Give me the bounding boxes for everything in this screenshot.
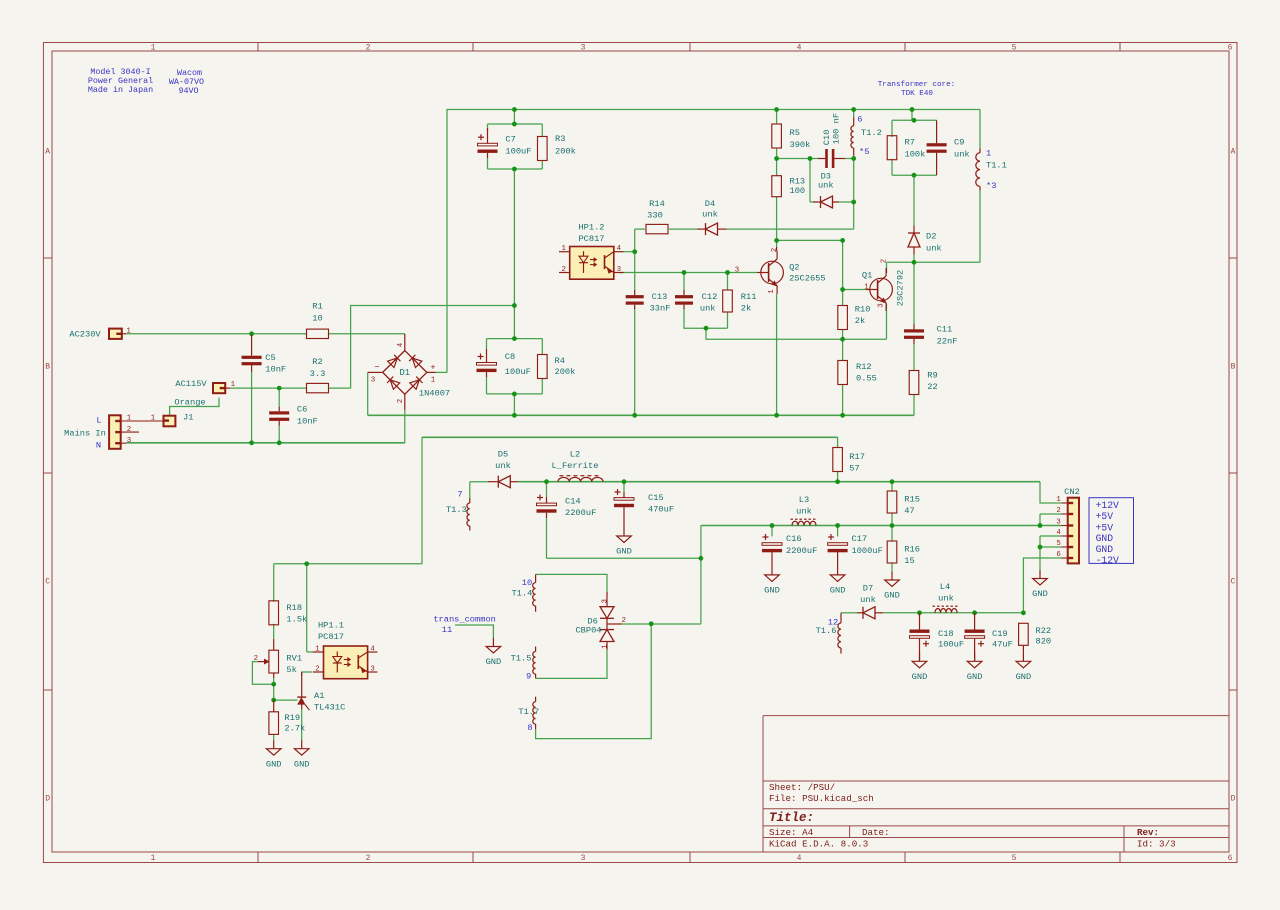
svg-text:10nF: 10nF bbox=[297, 416, 318, 426]
svg-text:D1: D1 bbox=[400, 368, 411, 378]
svg-text:Sheet: /PSU/: Sheet: /PSU/ bbox=[769, 782, 835, 793]
svg-text:C: C bbox=[45, 577, 50, 586]
svg-text:File: PSU.kicad_sch: File: PSU.kicad_sch bbox=[769, 793, 874, 804]
svg-text:unk: unk bbox=[860, 595, 876, 605]
svg-text:R18: R18 bbox=[286, 603, 302, 613]
svg-text:T1.1: T1.1 bbox=[986, 161, 1007, 171]
svg-text:3: 3 bbox=[1056, 519, 1060, 527]
svg-text:D4: D4 bbox=[705, 199, 715, 209]
svg-text:PC817: PC817 bbox=[318, 632, 344, 642]
svg-text:4: 4 bbox=[397, 342, 405, 347]
svg-text:R11: R11 bbox=[741, 292, 757, 302]
svg-text:4: 4 bbox=[617, 245, 622, 253]
svg-text:2: 2 bbox=[397, 399, 405, 403]
svg-text:R10: R10 bbox=[855, 304, 871, 314]
svg-text:3: 3 bbox=[581, 854, 586, 863]
svg-text:C6: C6 bbox=[297, 405, 307, 415]
svg-text:B: B bbox=[1231, 362, 1236, 371]
svg-text:C16: C16 bbox=[786, 534, 802, 544]
svg-text:3.3: 3.3 bbox=[310, 369, 326, 379]
svg-text:4: 4 bbox=[1056, 529, 1061, 537]
svg-text:T1.5: T1.5 bbox=[511, 654, 532, 664]
svg-text:GND: GND bbox=[1096, 533, 1114, 544]
svg-text:330: 330 bbox=[647, 211, 663, 221]
svg-text:L_Ferrite: L_Ferrite bbox=[552, 461, 599, 471]
svg-text:R16: R16 bbox=[904, 545, 920, 555]
svg-text:C7: C7 bbox=[505, 134, 515, 144]
svg-text:D2: D2 bbox=[926, 232, 936, 242]
svg-text:820: 820 bbox=[1036, 637, 1052, 647]
svg-text:2: 2 bbox=[315, 665, 319, 673]
svg-text:6: 6 bbox=[857, 115, 862, 125]
svg-text:D5: D5 bbox=[498, 450, 508, 460]
svg-text:+12V: +12V bbox=[1096, 500, 1119, 511]
svg-text:*5: *5 bbox=[859, 147, 869, 157]
svg-text:4: 4 bbox=[370, 645, 375, 653]
svg-text:2: 2 bbox=[771, 248, 779, 252]
svg-text:1000uF: 1000uF bbox=[852, 546, 883, 556]
svg-text:C15: C15 bbox=[648, 493, 664, 503]
svg-text:+: + bbox=[430, 363, 435, 373]
svg-text:GND: GND bbox=[294, 759, 310, 769]
svg-text:10: 10 bbox=[312, 314, 322, 324]
svg-text:Rev:: Rev: bbox=[1137, 827, 1159, 838]
svg-text:22: 22 bbox=[927, 382, 937, 392]
svg-text:10nF: 10nF bbox=[265, 365, 286, 375]
svg-text:1.5k: 1.5k bbox=[286, 615, 307, 625]
svg-text:D: D bbox=[1231, 794, 1236, 803]
svg-text:94VO: 94VO bbox=[178, 86, 198, 96]
svg-text:47: 47 bbox=[904, 506, 914, 516]
svg-text:57: 57 bbox=[849, 464, 859, 474]
svg-text:RV1: RV1 bbox=[286, 654, 302, 664]
svg-text:GND: GND bbox=[1016, 672, 1032, 682]
svg-text:R12: R12 bbox=[856, 362, 872, 372]
svg-text:Orange: Orange bbox=[174, 398, 205, 408]
svg-text:33nF: 33nF bbox=[650, 303, 671, 313]
svg-text:200k: 200k bbox=[555, 367, 576, 377]
svg-text:HP1.1: HP1.1 bbox=[318, 620, 344, 630]
svg-text:22nF: 22nF bbox=[937, 336, 958, 346]
svg-text:Transformer core:: Transformer core: bbox=[878, 81, 955, 89]
svg-text:1: 1 bbox=[151, 415, 156, 423]
svg-text:1: 1 bbox=[151, 43, 156, 52]
svg-text:AC230V: AC230V bbox=[69, 330, 101, 340]
svg-text:5k: 5k bbox=[286, 665, 296, 675]
svg-text:L3: L3 bbox=[799, 495, 809, 505]
svg-text:+5V: +5V bbox=[1096, 522, 1114, 533]
svg-text:B: B bbox=[45, 362, 50, 371]
svg-text:1: 1 bbox=[231, 381, 236, 389]
svg-text:L4: L4 bbox=[940, 582, 950, 592]
svg-text:C14: C14 bbox=[565, 496, 581, 506]
svg-text:Mains In: Mains In bbox=[64, 428, 106, 438]
svg-text:3: 3 bbox=[735, 267, 739, 275]
svg-text:C18: C18 bbox=[938, 629, 954, 639]
svg-text:KiCad E.D.A. 8.0.3: KiCad E.D.A. 8.0.3 bbox=[769, 839, 868, 850]
svg-text:N: N bbox=[96, 440, 101, 450]
svg-text:2: 2 bbox=[127, 426, 131, 434]
svg-text:C12: C12 bbox=[702, 292, 718, 302]
svg-text:2200uF: 2200uF bbox=[565, 508, 596, 518]
svg-text:2k: 2k bbox=[741, 303, 751, 313]
svg-text:2: 2 bbox=[366, 43, 371, 52]
svg-text:3: 3 bbox=[127, 437, 131, 445]
svg-text:GND: GND bbox=[1096, 544, 1114, 555]
svg-text:15: 15 bbox=[904, 556, 914, 566]
svg-text:1: 1 bbox=[601, 644, 609, 649]
svg-text:GND: GND bbox=[830, 586, 846, 596]
svg-text:R1: R1 bbox=[312, 302, 322, 312]
svg-text:1: 1 bbox=[768, 289, 776, 294]
svg-text:GND: GND bbox=[884, 591, 900, 601]
svg-text:C11: C11 bbox=[937, 325, 953, 335]
svg-text:100uF: 100uF bbox=[505, 146, 531, 156]
svg-text:R15: R15 bbox=[904, 495, 920, 505]
svg-text:A: A bbox=[1231, 147, 1236, 156]
svg-text:1: 1 bbox=[864, 284, 869, 292]
svg-text:1: 1 bbox=[126, 327, 131, 335]
svg-text:L: L bbox=[96, 416, 101, 426]
svg-text:unk: unk bbox=[938, 594, 954, 604]
svg-text:2.7k: 2.7k bbox=[284, 723, 305, 733]
svg-text:J1: J1 bbox=[183, 413, 193, 423]
svg-text:unk: unk bbox=[796, 507, 812, 517]
svg-text:-12V: -12V bbox=[1096, 555, 1119, 566]
svg-text:R4: R4 bbox=[555, 356, 565, 366]
svg-text:100 nF: 100 nF bbox=[831, 113, 841, 144]
svg-text:C13: C13 bbox=[652, 292, 668, 302]
svg-text:390k: 390k bbox=[790, 140, 811, 150]
svg-text:3: 3 bbox=[370, 665, 374, 673]
svg-text:R19: R19 bbox=[284, 713, 300, 723]
svg-text:2SC2655: 2SC2655 bbox=[789, 274, 826, 284]
svg-text:T1.4: T1.4 bbox=[511, 589, 532, 599]
svg-text:L2: L2 bbox=[570, 450, 580, 460]
svg-text:5: 5 bbox=[1056, 540, 1060, 548]
svg-text:T1.2: T1.2 bbox=[861, 128, 882, 138]
svg-text:A1: A1 bbox=[314, 691, 324, 701]
svg-text:CBP04: CBP04 bbox=[575, 626, 601, 636]
svg-text:7: 7 bbox=[457, 490, 462, 500]
svg-text:C17: C17 bbox=[852, 534, 868, 544]
svg-text:2: 2 bbox=[1056, 507, 1060, 515]
svg-text:8: 8 bbox=[527, 723, 532, 733]
svg-text:10: 10 bbox=[522, 578, 532, 588]
svg-text:unk: unk bbox=[702, 210, 718, 220]
svg-text:100: 100 bbox=[790, 186, 806, 196]
svg-text:*3: *3 bbox=[986, 181, 996, 191]
svg-text:D7: D7 bbox=[863, 584, 873, 594]
svg-text:R5: R5 bbox=[790, 128, 800, 138]
svg-text:unk: unk bbox=[700, 303, 716, 313]
svg-text:trans_common: trans_common bbox=[433, 615, 496, 625]
svg-text:3: 3 bbox=[617, 266, 621, 274]
svg-text:1: 1 bbox=[431, 377, 436, 385]
svg-text:0.55: 0.55 bbox=[856, 374, 877, 384]
svg-text:2: 2 bbox=[881, 259, 889, 263]
svg-text:Made in Japan: Made in Japan bbox=[88, 85, 153, 95]
svg-text:Size: A4: Size: A4 bbox=[769, 827, 814, 838]
svg-text:2: 2 bbox=[621, 617, 625, 625]
svg-text:3: 3 bbox=[581, 43, 586, 52]
svg-text:D: D bbox=[45, 794, 50, 803]
svg-text:2k: 2k bbox=[855, 316, 865, 326]
svg-text:1N4007: 1N4007 bbox=[419, 388, 450, 398]
svg-text:C: C bbox=[1231, 577, 1236, 586]
svg-text:2: 2 bbox=[254, 655, 258, 663]
svg-text:GND: GND bbox=[266, 759, 282, 769]
svg-text:TDK E40: TDK E40 bbox=[901, 90, 933, 98]
svg-text:PC817: PC817 bbox=[578, 234, 604, 244]
svg-text:1: 1 bbox=[315, 645, 320, 653]
svg-text:100uF: 100uF bbox=[938, 640, 964, 650]
svg-text:1: 1 bbox=[561, 245, 566, 253]
svg-text:R9: R9 bbox=[927, 371, 937, 381]
svg-text:unk: unk bbox=[495, 461, 511, 471]
svg-text:T1.6: T1.6 bbox=[816, 626, 837, 636]
svg-text:C9: C9 bbox=[954, 138, 964, 148]
svg-text:R7: R7 bbox=[905, 138, 915, 148]
svg-text:A: A bbox=[45, 147, 50, 156]
svg-text:unk: unk bbox=[818, 181, 834, 191]
svg-text:2SC2792: 2SC2792 bbox=[896, 270, 906, 307]
svg-text:2: 2 bbox=[366, 854, 371, 863]
svg-text:4: 4 bbox=[797, 43, 802, 52]
svg-text:5: 5 bbox=[1012, 43, 1017, 52]
svg-text:R14: R14 bbox=[649, 199, 665, 209]
svg-text:1: 1 bbox=[986, 149, 991, 159]
svg-text:R2: R2 bbox=[312, 357, 322, 367]
svg-text:unk: unk bbox=[954, 150, 970, 160]
svg-text:R3: R3 bbox=[555, 134, 565, 144]
svg-text:−: − bbox=[374, 363, 379, 373]
svg-text:HP1.2: HP1.2 bbox=[578, 223, 604, 233]
svg-text:+5V: +5V bbox=[1096, 511, 1114, 522]
svg-text:3: 3 bbox=[371, 377, 375, 385]
svg-text:3: 3 bbox=[878, 303, 886, 307]
svg-text:3: 3 bbox=[601, 599, 609, 603]
svg-text:100uF: 100uF bbox=[505, 367, 531, 377]
svg-text:1: 1 bbox=[151, 854, 156, 863]
svg-text:Title:: Title: bbox=[769, 811, 814, 825]
svg-text:C19: C19 bbox=[992, 629, 1008, 639]
svg-text:470uF: 470uF bbox=[648, 505, 674, 515]
svg-text:2: 2 bbox=[561, 266, 565, 274]
svg-text:Q1: Q1 bbox=[862, 271, 872, 281]
svg-text:GND: GND bbox=[1032, 589, 1048, 599]
svg-text:11: 11 bbox=[442, 625, 452, 635]
svg-text:Id: 3/3: Id: 3/3 bbox=[1137, 839, 1176, 850]
svg-text:Date:: Date: bbox=[862, 827, 890, 838]
svg-text:200k: 200k bbox=[555, 146, 576, 156]
svg-text:R17: R17 bbox=[849, 452, 865, 462]
svg-text:9: 9 bbox=[526, 672, 531, 682]
svg-text:GND: GND bbox=[486, 657, 502, 667]
svg-text:1: 1 bbox=[127, 415, 132, 423]
svg-text:T1.3: T1.3 bbox=[446, 505, 467, 515]
svg-text:GND: GND bbox=[912, 672, 928, 682]
svg-text:6: 6 bbox=[1228, 854, 1233, 863]
svg-text:Q2: Q2 bbox=[789, 263, 799, 273]
svg-text:100k: 100k bbox=[905, 150, 926, 160]
svg-text:GND: GND bbox=[616, 547, 632, 557]
svg-text:47uF: 47uF bbox=[992, 640, 1013, 650]
svg-text:2200uF: 2200uF bbox=[786, 546, 817, 556]
svg-text:6: 6 bbox=[1228, 43, 1233, 52]
svg-text:TL431C: TL431C bbox=[314, 702, 345, 712]
svg-text:GND: GND bbox=[967, 672, 983, 682]
svg-text:C8: C8 bbox=[505, 352, 515, 362]
svg-text:CN2: CN2 bbox=[1064, 487, 1080, 497]
svg-text:R22: R22 bbox=[1036, 626, 1052, 636]
svg-text:GND: GND bbox=[764, 586, 780, 596]
svg-text:5: 5 bbox=[1012, 854, 1017, 863]
svg-text:unk: unk bbox=[926, 243, 942, 253]
svg-text:4: 4 bbox=[797, 854, 802, 863]
svg-text:AC115V: AC115V bbox=[175, 379, 207, 389]
svg-text:T1.7: T1.7 bbox=[518, 707, 539, 717]
svg-text:C5: C5 bbox=[265, 353, 275, 363]
svg-text:1: 1 bbox=[1056, 496, 1061, 504]
svg-text:6: 6 bbox=[1056, 551, 1060, 559]
